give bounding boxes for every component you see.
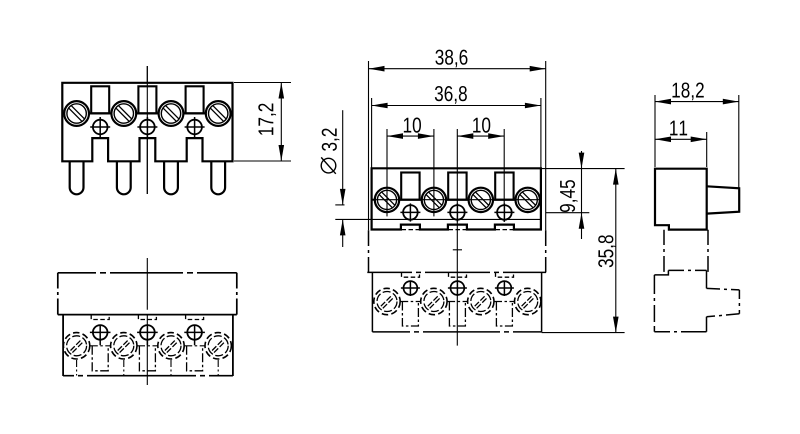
dimension 17,2 extension lines [234,82,291,84]
dimension 36,8 extension line left [371,98,373,168]
wire hole 2 view B [137,325,158,346]
wedge outline view D [707,186,740,213]
body outline view C [372,168,541,229]
lower mating part upper rect view C (phantom) [367,230,546,272]
hidden screw 2 view B [111,333,137,359]
partition tab 1 view C [401,173,419,200]
wire hole 3 view B [184,325,205,346]
wire hole 1 lower view C [401,281,420,297]
centerline view A upper part redrawn over body [146,66,148,194]
dimension 11 extension line [706,132,708,167]
dimension 38,6 dimension line [369,68,546,70]
hidden foot recess 2 lower view C [449,272,467,277]
thin shoulder line view C [335,218,541,220]
dimension 36,8 label [435,86,467,104]
centerline view B [146,258,148,385]
hidden foot recess 1 lower view C [402,272,420,277]
hidden recess rect 2 lower view C [449,302,465,327]
dimension 17,2 dimension line [280,83,282,162]
pin 2 view A [117,161,131,194]
shoulder line view C [372,199,541,201]
wire hole 3 view A [185,117,205,137]
hidden foot recess 3 lower view C [496,272,514,277]
wire hole 2 lower view C [448,281,467,297]
dimension 11 label [670,121,687,136]
dimension 18,2 extension lines [654,95,656,167]
pin 3 view A [164,161,178,194]
screw 3 view A [159,101,184,126]
dimension 35,8 dimension line [615,169,617,333]
screw 4 view A [206,101,231,126]
view C main centreline [456,129,458,346]
wire hole 2 view C [447,203,467,221]
hole top tangent line view C [335,204,344,206]
dimension 10 second label [473,117,490,132]
hidden recess rect 3 view B [187,346,203,371]
body outline view D [655,169,707,230]
hidden screw 1 view B [63,333,89,359]
partition tab 2 view C [448,173,466,200]
lower body left edge view B [62,315,64,376]
pin centerline stubs view B [77,360,219,376]
dimension 36,8 extension line right [540,98,542,168]
dimension 38,6 extension line left [368,61,370,230]
dimension 18,2 dimension line [655,101,739,103]
body outline view A [62,83,232,162]
hidden screw 3 view B [158,333,184,359]
shoulder dash line view B [90,345,205,347]
hidden foot recess 3 view B [186,315,204,320]
dimension 38,6 label [435,50,467,68]
wire hole 3 lower view C [495,281,514,297]
hidden recess rect 2 view B [139,346,155,371]
partition tab 3 view A [186,86,204,113]
wire hole 1 view C [400,203,420,221]
wire hole 1 view A [90,117,110,137]
dimension 9,45 dimension line [581,151,583,239]
partition tab 3 view C [495,173,513,200]
hidden recess rect 1 lower view C [402,302,418,327]
lower body right edge view B [232,315,234,376]
phantom lower body view D [654,270,706,331]
screw 4 view C [516,188,540,212]
dimension 10 first label [404,117,421,132]
dimension 38,6 extension line right [545,61,547,230]
screw 2 view A [111,101,136,126]
dimension phi 3,2 label [321,128,339,173]
dimension phi 3,2 dimension line [342,110,344,205]
dimension 9,45 label [560,180,578,212]
dimension 36,8 dimension line [372,105,541,107]
hidden screw 3 lower view C [468,288,494,314]
dimension 17,2 label [258,104,276,135]
dimension 11 dimension line [655,138,707,140]
dimension 10 second dimension line [457,135,504,137]
dimension 9,45 extension lines [541,168,625,170]
screw 2 view C [422,188,446,212]
hidden screw 4 lower view C [515,288,541,314]
hidden foot recess 2 view B [138,315,156,320]
hidden screw 2 lower view C [421,288,447,314]
partition tab 1 view A [91,86,109,113]
phantom neck view D [664,230,708,272]
hidden recess rect 3 lower view C [496,302,512,327]
hidden screw 1 lower view C [374,288,400,314]
lower body bottom edge view B (phantom) [63,375,233,377]
dimension 10 first dimension line [387,135,434,137]
dimension 10 second extension line [503,129,505,222]
hidden recess rect 1 view B [92,346,108,371]
phantom wedge view D [707,288,740,316]
wire hole 3 view C [494,203,514,221]
centre tick view C [453,249,462,251]
hidden foot recess 1 view B [91,315,109,320]
upper plate outline view B (phantom) [58,272,237,274]
hidden screw 4 view B [205,333,231,359]
dimension 18,2 label [672,82,703,100]
pin 4 view A [211,161,225,194]
dimension 35,8 label [598,235,616,267]
dimension 10 first extension/centre lines [386,129,388,216]
shoulder dash line lower view C [400,301,514,303]
pin 1 view A [70,161,84,194]
centerline view A [146,66,148,194]
screw 3 view C [469,188,493,212]
wire hole 1 view B [90,325,111,346]
lower mating part top edge dashes view C [402,229,514,231]
screw 1 view A [64,101,89,126]
shoulder line view A [62,112,232,114]
lower mating part body sides view C (phantom) [372,272,541,332]
screw 1 view C [375,188,399,212]
wire hole 2 view A [137,117,157,137]
dimension 35,8 bottom extension line [542,332,625,334]
partition tab 2 view A [138,86,156,113]
